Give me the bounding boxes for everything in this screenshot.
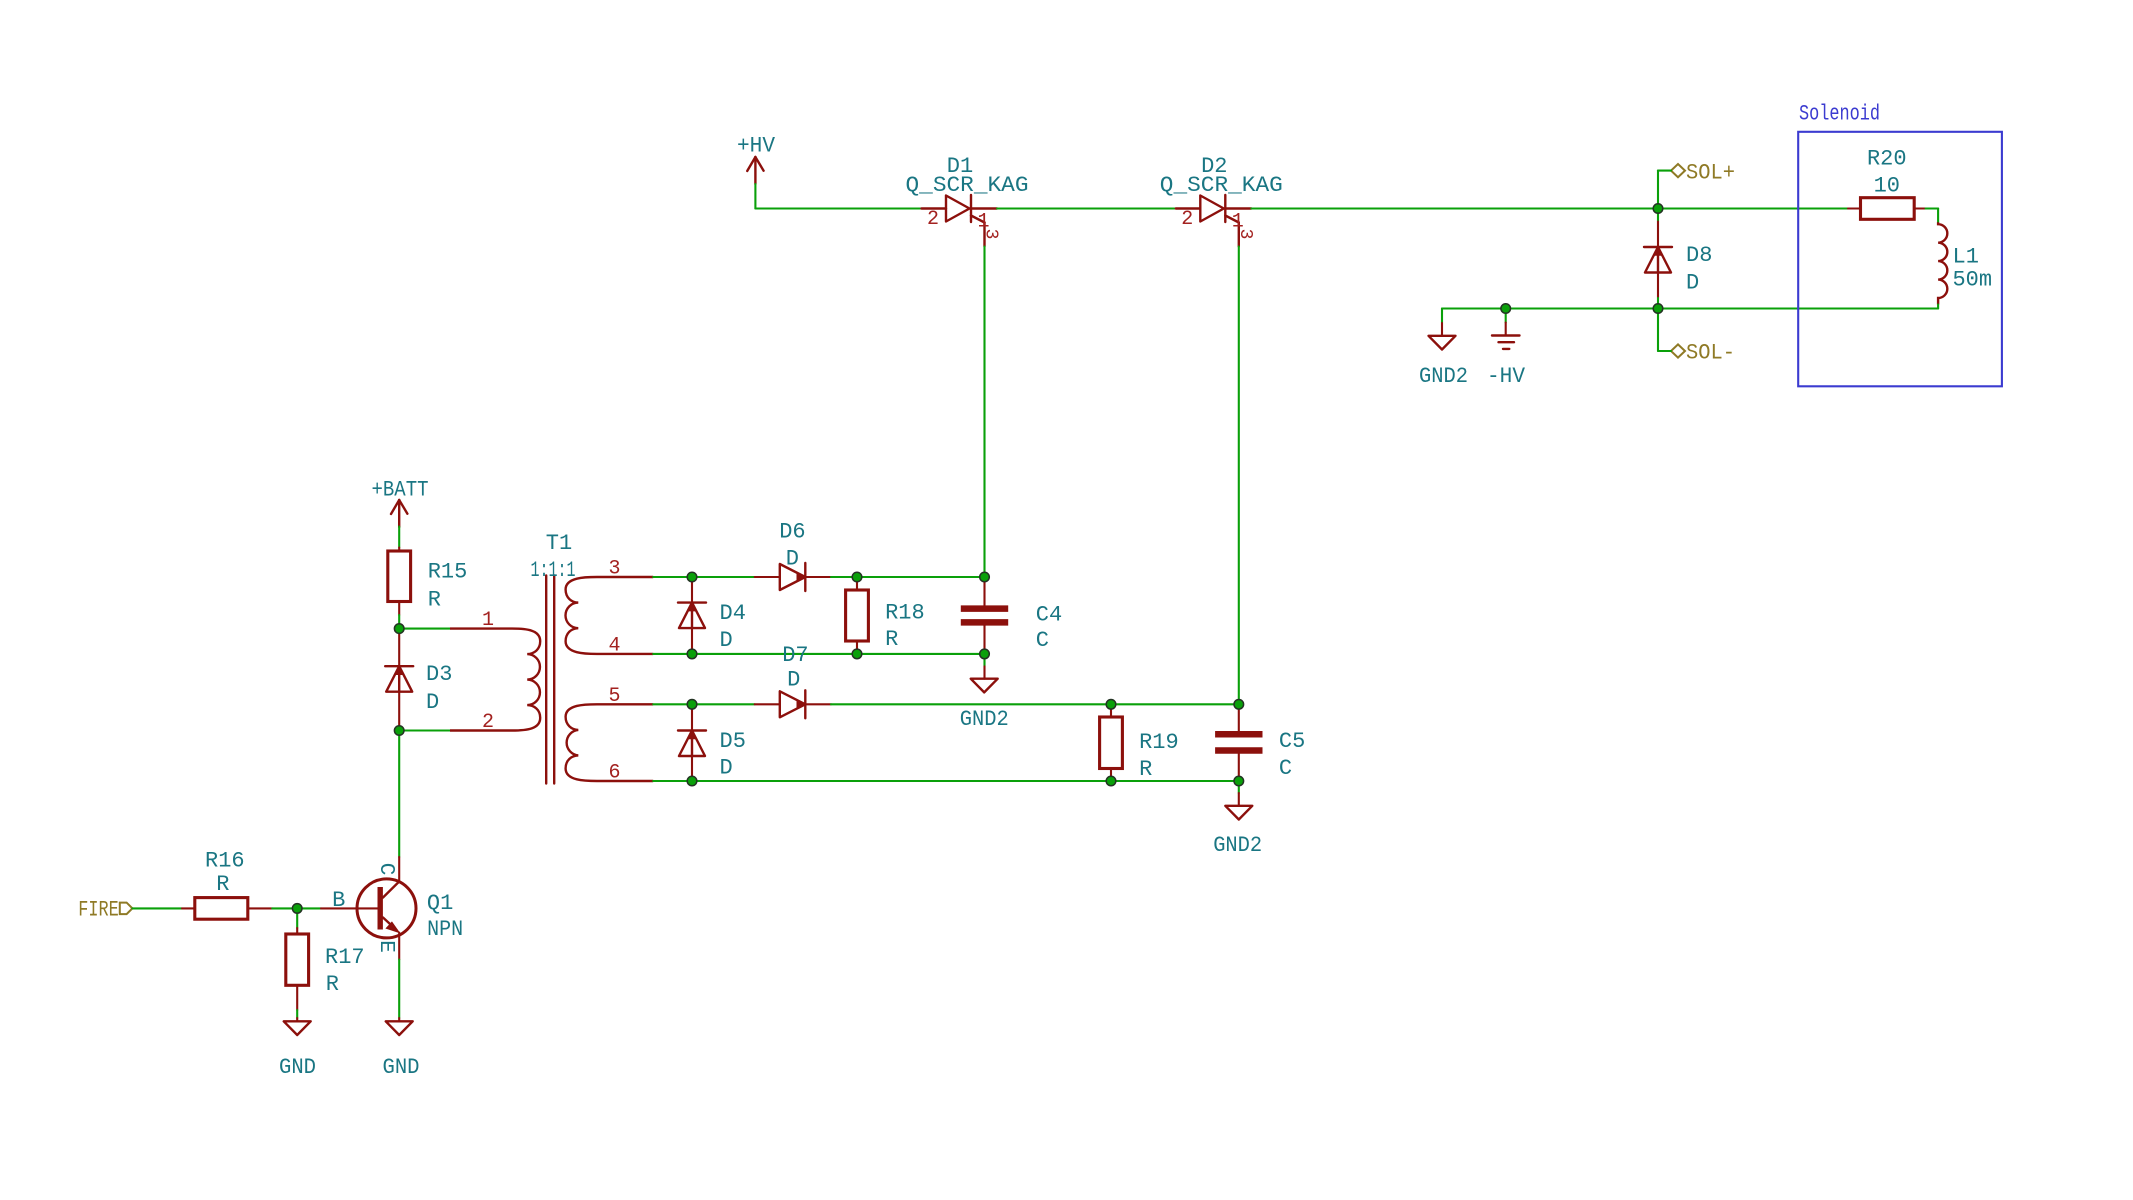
- wire pin6 rail: [653, 780, 692, 782]
- svg-text:D4: D4: [720, 601, 746, 626]
- svg-text:SOL-: SOL-: [1686, 341, 1735, 366]
- svg-text:R16: R16: [205, 848, 245, 873]
- svg-text:R15: R15: [428, 560, 468, 585]
- wire D2 gate to C5 node: [1238, 247, 1240, 705]
- svg-text:D6: D6: [779, 519, 805, 544]
- svg-text:GND2: GND2: [960, 707, 1009, 732]
- ground GND2 left: [1441, 309, 1443, 324]
- wire D7 to R19: [831, 703, 1111, 705]
- transformer T1 secondary winding B: [566, 704, 654, 781]
- diode D3: [398, 629, 400, 667]
- hierarchical label SOL-: [1671, 344, 1685, 357]
- svg-text:-HV: -HV: [1487, 364, 1526, 389]
- svg-text:D: D: [786, 547, 799, 572]
- wire top rail +HV to D1 anode: [755, 207, 921, 209]
- svg-text:B: B: [332, 888, 345, 913]
- svg-text:3: 3: [608, 558, 620, 581]
- wire D1 gate to C4 node: [983, 247, 985, 578]
- svg-text:5: 5: [608, 685, 620, 708]
- node R18 top: [857, 576, 985, 578]
- svg-text:SOL+: SOL+: [1686, 160, 1735, 185]
- svg-text:6: 6: [608, 762, 620, 785]
- power flag +HV: [747, 157, 763, 184]
- svg-text:3: 3: [1235, 229, 1255, 240]
- wire R17 to GND: [296, 1010, 298, 1018]
- resistor R15: [398, 548, 400, 552]
- ground GND2 under C4: [983, 654, 985, 667]
- node D5 bottom: [692, 780, 1111, 782]
- svg-text:C4: C4: [1036, 602, 1062, 627]
- wire D1 cathode to D2 anode: [997, 207, 1176, 209]
- svg-text:Q1: Q1: [427, 891, 453, 916]
- svg-text:R: R: [326, 972, 339, 997]
- junction dots overlay: [1653, 204, 1663, 214]
- node D5 top: [692, 703, 755, 705]
- svg-text:2: 2: [927, 208, 939, 231]
- diode D6: [755, 576, 780, 578]
- sheet Solenoid box: [1798, 132, 2002, 386]
- wire bottom solenoid rail: [1442, 307, 1938, 309]
- hierarchical label SOL+: [1671, 164, 1685, 177]
- ground GND under Q1: [398, 1018, 400, 1021]
- svg-text:D5: D5: [720, 729, 746, 754]
- node R18 bottom: [857, 653, 985, 655]
- svg-text:E: E: [374, 940, 397, 953]
- svg-text:R17: R17: [325, 945, 365, 970]
- power -HV ground symbol: [1505, 309, 1507, 323]
- svg-text:GND2: GND2: [1419, 364, 1468, 389]
- svg-text:T1: T1: [546, 531, 572, 556]
- wire SOL+ label to junction: [1658, 170, 1671, 172]
- resistor R18: [856, 577, 858, 590]
- wire node to sheet pin R20: [1658, 207, 1848, 209]
- svg-text:3: 3: [981, 229, 1001, 240]
- svg-text:C: C: [1036, 628, 1049, 653]
- SCR D1 Q_SCR_KAG: [922, 195, 998, 247]
- svg-text:D8: D8: [1686, 243, 1712, 268]
- wire +HV down to top rail: [754, 184, 756, 209]
- svg-text:+HV: +HV: [737, 134, 776, 159]
- resistor R17: [296, 908, 298, 928]
- transformer T1 core: [545, 576, 547, 784]
- svg-text:L1: L1: [1953, 245, 1979, 270]
- svg-text:2: 2: [482, 711, 494, 734]
- svg-text:D7: D7: [782, 643, 808, 668]
- node R19 bottom: [1111, 780, 1239, 782]
- resistor R19: [1110, 704, 1112, 717]
- wire D2 cathode to solenoid node: [1251, 207, 1658, 209]
- svg-text:Q_SCR_KAG: Q_SCR_KAG: [1160, 173, 1283, 198]
- svg-text:R18: R18: [885, 600, 925, 625]
- svg-text:D3: D3: [426, 662, 452, 687]
- svg-text:R: R: [216, 872, 229, 897]
- ground GND under R17: [296, 1018, 298, 1021]
- svg-text:+BATT: +BATT: [372, 478, 429, 503]
- svg-text:D: D: [787, 668, 800, 693]
- wire R15 to node: [398, 615, 400, 629]
- SCR D2 Q_SCR_KAG: [1176, 195, 1252, 247]
- node R19 top: [1111, 703, 1239, 705]
- svg-text:4: 4: [608, 634, 620, 657]
- svg-text:D: D: [720, 628, 733, 653]
- svg-text:GND2: GND2: [1213, 833, 1262, 858]
- svg-text:1: 1: [482, 609, 494, 632]
- capacitor C5: [1238, 704, 1240, 731]
- wire pin5 rail: [653, 703, 692, 705]
- Q1 emitter with arrow: [383, 918, 397, 931]
- power flag +BATT: [391, 500, 407, 527]
- diode D8: [1657, 209, 1659, 222]
- wire L1 bottom to rail: [1937, 305, 1939, 309]
- node D4 top: [692, 576, 755, 578]
- wire D6 to R18: [831, 576, 857, 578]
- capacitor C4: [983, 577, 985, 605]
- svg-text:FIRE: FIRE: [78, 897, 119, 922]
- transistor Q1 NPN: [357, 879, 416, 938]
- svg-text:GND: GND: [279, 1055, 316, 1080]
- svg-text:R: R: [428, 588, 441, 613]
- svg-text:NPN: NPN: [427, 917, 463, 942]
- wire pin4 rail: [653, 653, 692, 655]
- resistor R20: [1848, 207, 1861, 209]
- svg-text:10: 10: [1874, 174, 1900, 199]
- wire node to Q1 base: [297, 907, 321, 909]
- diode D7: [755, 703, 780, 705]
- wire pin3 rail: [653, 576, 692, 578]
- transformer T1 secondary winding A: [566, 577, 654, 654]
- svg-text:R20: R20: [1867, 147, 1907, 172]
- svg-text:R: R: [885, 627, 898, 652]
- transformer T1 primary winding: [399, 628, 450, 630]
- wire to Q1 collector: [398, 731, 400, 858]
- svg-text:Q_SCR_KAG: Q_SCR_KAG: [906, 173, 1029, 198]
- global label FIRE: [120, 903, 133, 915]
- svg-text:D: D: [426, 690, 439, 715]
- diode D5: [691, 704, 693, 730]
- wire R16 to base node: [272, 907, 297, 909]
- svg-text:D: D: [1686, 271, 1699, 296]
- svg-text:R: R: [1139, 757, 1152, 782]
- wire SOL- label to rail: [1657, 309, 1659, 352]
- svg-text:50m: 50m: [1953, 268, 1993, 293]
- svg-text:C5: C5: [1279, 729, 1305, 754]
- wire FIRE to R16: [132, 907, 182, 909]
- svg-text:1:1:1: 1:1:1: [531, 558, 576, 583]
- svg-text:D: D: [720, 756, 733, 781]
- node D4 bottom: [692, 653, 857, 655]
- svg-text:GND: GND: [383, 1055, 420, 1080]
- wire +BATT to R15: [398, 527, 400, 548]
- svg-text:2: 2: [1181, 208, 1193, 231]
- diode D4: [691, 577, 693, 603]
- svg-text:Solenoid: Solenoid: [1799, 102, 1880, 127]
- wire Q1 emitter to GND: [398, 960, 400, 1019]
- svg-text:C: C: [1279, 756, 1292, 781]
- ground GND2 under C5: [1238, 781, 1240, 793]
- inductor L1 50m: [1938, 222, 1947, 304]
- svg-text:R19: R19: [1139, 730, 1179, 755]
- svg-text:C: C: [374, 863, 397, 876]
- Q1 collector: [383, 882, 399, 898]
- wire R20 to L1: [1926, 207, 1939, 209]
- resistor R16: [182, 907, 195, 909]
